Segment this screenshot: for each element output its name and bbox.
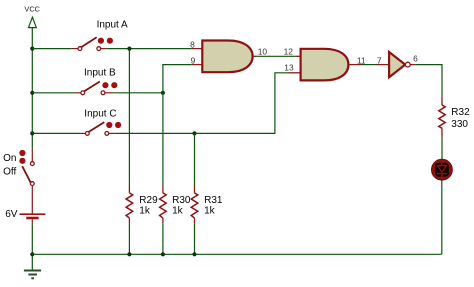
svg-text:Input A: Input A: [97, 20, 128, 31]
junction node B column: [161, 91, 165, 95]
junction node row A / left rail: [30, 47, 34, 51]
resistor R30 1k: [160, 186, 191, 255]
wire column B up to pin 9: [163, 65, 191, 93]
wire R32 to LED: [441, 137, 443, 160]
wire row A left segment: [32, 48, 71, 50]
power symbol VCC: [24, 5, 40, 28]
junction node bottom rail / R29: [127, 252, 131, 256]
switch On/Off SW1: [3, 149, 34, 214]
resistor R31 1k: [191, 186, 223, 255]
wire column B down to R30: [162, 93, 164, 186]
resistor R29 1k: [126, 186, 158, 255]
svg-text:7: 7: [377, 56, 382, 66]
wire row A to junction and pin 8: [106, 48, 191, 50]
junction node bottom rail / R31: [192, 252, 196, 256]
wire inverter output to R32 column: [416, 65, 442, 97]
svg-text:1k: 1k: [139, 206, 151, 217]
wire left VCC rail vertical: [31, 28, 33, 149]
wire column C down to R31: [194, 133, 196, 185]
op-amp U1:D AND gate pins 12 13 11: [284, 46, 366, 80]
svg-text:9: 9: [191, 55, 196, 65]
svg-text:R29: R29: [139, 195, 158, 206]
junction node C column: [192, 131, 196, 135]
junction node row C / left rail: [30, 131, 34, 135]
inverter U2 pins 7 6: [377, 52, 419, 77]
svg-text:R32: R32: [451, 107, 470, 118]
svg-text:6: 6: [413, 54, 418, 64]
switch Input B: [76, 68, 118, 95]
op-amp U1:C AND gate pins 8 9 10: [190, 40, 267, 73]
svg-text:On: On: [3, 153, 16, 164]
junction node bottom rail / R30: [161, 252, 165, 256]
wire row C to pin 13 riser: [195, 73, 289, 134]
svg-text:13: 13: [284, 62, 294, 72]
svg-text:10: 10: [258, 46, 268, 56]
svg-text:Off: Off: [3, 166, 16, 177]
svg-text:VCC: VCC: [24, 5, 40, 14]
svg-text:1k: 1k: [204, 206, 216, 217]
wire LED to bottom rail: [441, 180, 443, 255]
svg-text:R31: R31: [204, 195, 223, 206]
wire row B left segment: [32, 92, 75, 94]
junction node A column: [127, 47, 131, 51]
svg-text:8: 8: [190, 40, 195, 50]
svg-text:R30: R30: [172, 195, 191, 206]
wire row C left segment: [32, 132, 80, 134]
LED D1: [432, 159, 453, 180]
wire battery to bottom rail and ground stub: [31, 224, 33, 270]
svg-text:Input B: Input B: [84, 68, 116, 79]
resistor R32 330: [439, 96, 470, 137]
svg-text:1k: 1k: [172, 206, 184, 217]
svg-text:6V: 6V: [5, 209, 18, 220]
battery BAT1 6V: [5, 209, 45, 224]
switch Input A: [71, 20, 128, 51]
wire gate2 output to inverter: [362, 64, 377, 66]
junction node bottom rail / battery: [30, 252, 34, 256]
wire bottom rail: [32, 253, 442, 255]
junction node row B / left rail: [30, 91, 34, 95]
svg-text:Input C: Input C: [84, 109, 116, 120]
svg-text:330: 330: [451, 119, 468, 130]
wire row C to junction C column: [115, 132, 194, 134]
wire column A down to R29: [128, 49, 130, 186]
svg-text:12: 12: [284, 46, 294, 56]
switch Input C: [80, 109, 121, 136]
wire gate1 output to gate2 pin 12: [257, 55, 296, 57]
wire row B to junction B column: [112, 92, 163, 94]
ground: [24, 271, 41, 279]
